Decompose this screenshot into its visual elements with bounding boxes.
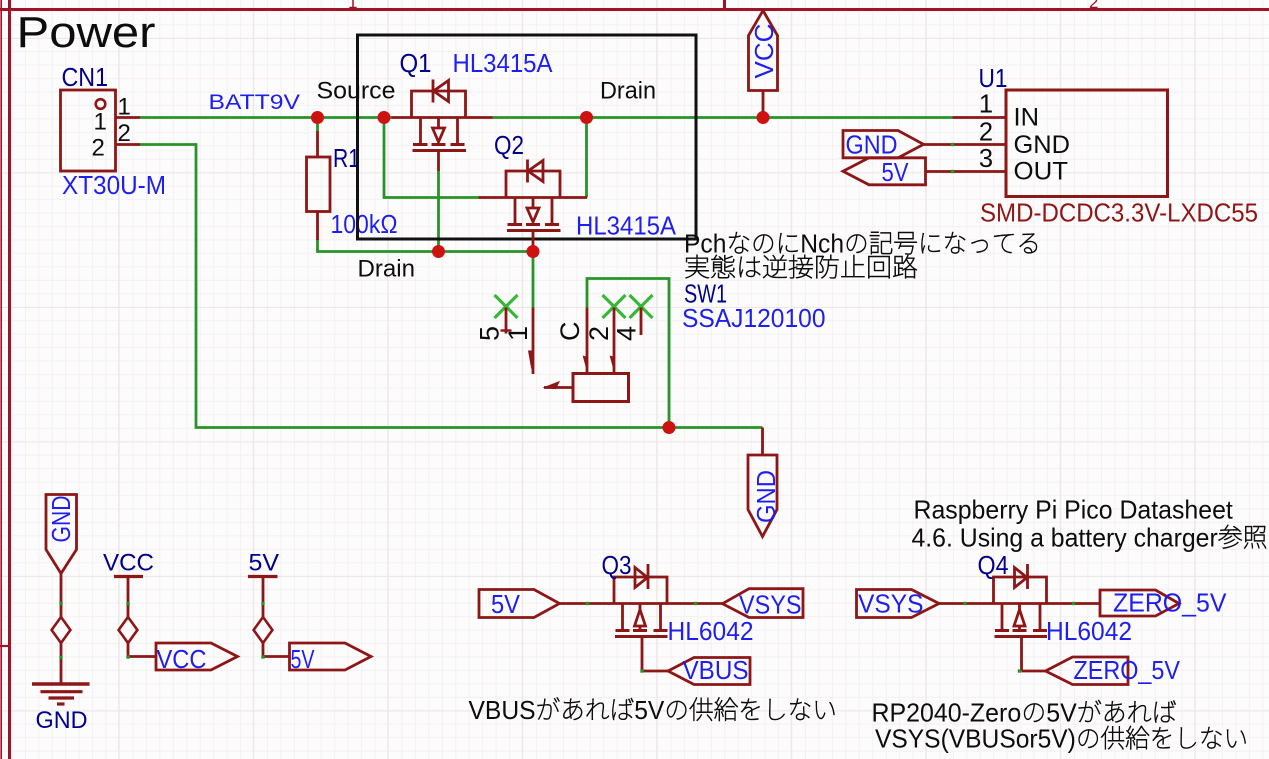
svg-text:2: 2 — [1089, 0, 1098, 12]
svg-text:HL3415A: HL3415A — [576, 211, 677, 241]
svg-text:1: 1 — [979, 91, 993, 119]
svg-text:Q1: Q1 — [400, 48, 432, 78]
svg-text:OUT: OUT — [1014, 157, 1069, 185]
svg-text:5V: 5V — [249, 550, 280, 577]
svg-text:Source: Source — [317, 78, 396, 105]
svg-text:4.6. Using a battery charger: 4.6. Using a battery charger — [912, 524, 1219, 553]
svg-text:2: 2 — [92, 135, 105, 162]
svg-text:5V: 5V — [491, 589, 521, 619]
svg-text:1: 1 — [118, 94, 131, 121]
svg-text:R1: R1 — [333, 143, 360, 173]
svg-text:VBUS: VBUS — [683, 655, 749, 685]
svg-text:1: 1 — [94, 109, 107, 136]
svg-text:3: 3 — [979, 145, 993, 173]
svg-text:HL6042: HL6042 — [1046, 616, 1132, 646]
svg-text:Q3: Q3 — [602, 550, 632, 580]
svg-text:SSAJ120100: SSAJ120100 — [682, 303, 826, 333]
svg-text:VCC: VCC — [157, 644, 207, 674]
svg-text:5V: 5V — [882, 157, 910, 187]
svg-text:VSYS(VBUSor5V): VSYS(VBUSor5V) — [875, 725, 1076, 754]
svg-text:CN1: CN1 — [62, 62, 109, 92]
svg-text:5V: 5V — [1046, 699, 1077, 728]
svg-text:HL3415A: HL3415A — [453, 48, 554, 78]
svg-text:1: 1 — [503, 326, 533, 341]
svg-text:VCC: VCC — [749, 24, 779, 79]
svg-text:ZERO_5V: ZERO_5V — [1074, 655, 1181, 685]
svg-text:GND: GND — [1014, 131, 1071, 159]
svg-text:BATT9V: BATT9V — [209, 91, 301, 114]
svg-text:5V: 5V — [634, 696, 664, 725]
svg-text:1: 1 — [348, 0, 357, 12]
svg-text:GND: GND — [36, 707, 88, 734]
svg-text:XT30U-M: XT30U-M — [62, 170, 166, 200]
svg-text:5: 5 — [475, 326, 505, 341]
svg-text:2: 2 — [979, 118, 993, 146]
svg-text:C: C — [555, 322, 585, 342]
svg-text:VSYS: VSYS — [858, 589, 924, 619]
svg-text:VCC: VCC — [103, 550, 154, 577]
svg-text:2: 2 — [118, 120, 131, 147]
svg-text:GND: GND — [751, 470, 781, 523]
svg-text:U1: U1 — [979, 63, 1008, 93]
svg-text:GND: GND — [846, 130, 898, 160]
svg-text:GND: GND — [46, 496, 76, 543]
svg-text:5V: 5V — [291, 644, 315, 674]
svg-text:2: 2 — [584, 326, 614, 341]
svg-text:Drain: Drain — [358, 256, 416, 283]
svg-text:100kΩ: 100kΩ — [331, 209, 398, 239]
svg-text:Pch: Pch — [684, 230, 726, 259]
svg-text:RP2040-Zero: RP2040-Zero — [872, 699, 1022, 728]
svg-text:Raspberry Pi Pico Datasheet: Raspberry Pi Pico Datasheet — [914, 496, 1233, 525]
svg-text:Q2: Q2 — [494, 130, 524, 160]
svg-text:Q4: Q4 — [978, 550, 1009, 580]
svg-text:HL6042: HL6042 — [668, 616, 754, 646]
svg-text:SMD-DCDC3.3V-LXDC55: SMD-DCDC3.3V-LXDC55 — [980, 198, 1258, 228]
svg-text:IN: IN — [1014, 104, 1040, 132]
svg-text:ZERO_5V: ZERO_5V — [1113, 588, 1227, 618]
svg-text:Power: Power — [17, 9, 156, 57]
svg-text:4: 4 — [612, 326, 642, 341]
svg-text:Nch: Nch — [800, 230, 844, 259]
svg-text:VSYS: VSYS — [739, 590, 802, 620]
svg-text:VBUS: VBUS — [469, 696, 536, 725]
svg-text:Drain: Drain — [600, 78, 656, 105]
